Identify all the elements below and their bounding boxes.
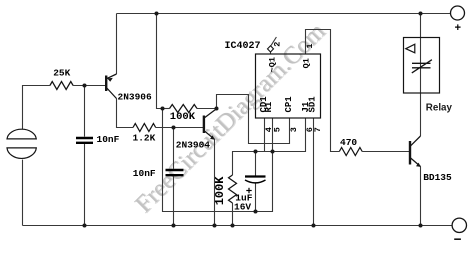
- transistor Q3 BD135: [410, 136, 421, 167]
- svg-text:Relay: Relay: [426, 103, 453, 114]
- junction ground rail / Q3 emitter: [419, 224, 423, 228]
- relay triangle: [406, 44, 415, 53]
- transistor Q1 arrow: [107, 78, 113, 82]
- transistor Q2 2N3904: [204, 109, 217, 140]
- resistor R 100K vertical: [229, 175, 237, 203]
- wire IC pin6 J1 and net-A horizontal: [233, 118, 306, 175]
- wire top rail: [117, 13, 451, 15]
- wire Q1 pin1 up over and down to 470: [306, 30, 340, 152]
- junction 100K left / net B: [161, 107, 165, 111]
- svg-text:100K: 100K: [170, 111, 196, 123]
- wire 1.2K to 2N3904 base: [156, 127, 204, 129]
- wire 100K-h right lead: [197, 108, 217, 110]
- wire 2N3904 collector route to CP1 pin3: [217, 95, 290, 144]
- wire pin2 slant tick: [271, 37, 276, 46]
- capacitor C3 1uF plates: [245, 177, 266, 183]
- svg-text:IC4027: IC4027: [225, 41, 261, 52]
- junction V+ rail / relay drop: [419, 12, 423, 16]
- resistor R 470: [339, 148, 362, 156]
- relay box: [404, 38, 440, 94]
- svg-text:1.2K: 1.2K: [133, 133, 156, 144]
- svg-text:100K: 100K: [213, 176, 227, 206]
- minus sign: [454, 238, 461, 240]
- wire 1uF bottom lead: [255, 184, 257, 212]
- svg-text:10nF: 10nF: [97, 134, 120, 145]
- terminal minus circle: [452, 218, 466, 232]
- capacitor C2 10nF plates: [166, 170, 184, 175]
- svg-text:2N3906: 2N3906: [118, 91, 153, 102]
- capacitor C1 10nF plates: [76, 138, 93, 143]
- pin 2 open diamond: [268, 46, 274, 52]
- wire 25K to base: [73, 85, 105, 87]
- junction ground rail / C2: [172, 224, 176, 228]
- svg-text:1: 1: [305, 43, 315, 48]
- wire 1uF top lead: [255, 152, 257, 176]
- wire 100K-v bottom to rail: [232, 203, 234, 226]
- wire 2N3904 emitter to rail: [214, 139, 216, 225]
- svg-text:R1: R1: [264, 101, 274, 112]
- svg-text:5: 5: [272, 127, 282, 132]
- wire IC pin4 CD1: [264, 118, 266, 152]
- svg-text:2N3904: 2N3904: [176, 139, 211, 150]
- wire mic bottom to rail: [22, 160, 24, 226]
- wire bottom rail: [23, 225, 453, 227]
- transistor Q2 arrow: [210, 135, 215, 139]
- relay coil cross symbol: [412, 60, 432, 73]
- junction 100K right / Q2 collector: [215, 107, 219, 111]
- terminal plus circle: [451, 6, 465, 20]
- svg-text:BD135: BD135: [423, 172, 452, 183]
- wire BD135 emitter to rail: [420, 167, 422, 226]
- capacitor C3 plus sign: [246, 188, 251, 193]
- wire 10nF2 to rail: [173, 176, 175, 225]
- rotated pin numbers: [264, 42, 323, 133]
- svg-text:16V: 16V: [234, 201, 251, 212]
- resistor R 1.2K: [133, 124, 156, 132]
- wire 10nF1 to rail: [84, 144, 86, 226]
- junction Q2 base / C2: [172, 126, 176, 130]
- junction ground rail / Q2 emitter: [213, 224, 217, 228]
- svg-text:10nF: 10nF: [133, 168, 156, 179]
- wire base line mic to 2N3906: [23, 86, 50, 130]
- wire 100K-h left lead: [163, 108, 170, 110]
- rotated IC pin labels: [213, 57, 318, 205]
- svg-text:Q1: Q1: [302, 58, 312, 68]
- svg-text:2: 2: [273, 42, 283, 47]
- svg-text:470: 470: [340, 137, 357, 148]
- wire 10nF2 branch from base: [173, 128, 175, 169]
- junction net A / C3 top: [254, 150, 258, 154]
- wire IC pin2 stub: [270, 52, 272, 54]
- wire 10nF1 branch: [84, 86, 86, 137]
- junction base wire / C1: [83, 84, 87, 88]
- wire rail drop x156 to 100K junction: [157, 14, 163, 109]
- resistor R 25K: [50, 82, 73, 90]
- junction V+ rail / x156 drop: [155, 12, 159, 16]
- svg-text:3: 3: [289, 127, 299, 132]
- junction net A / R1 pin5: [271, 150, 275, 154]
- junction ground rail / SD1 pin7: [312, 224, 316, 228]
- transistor Q3 arrow: [416, 163, 421, 167]
- wire IC pin7 SD1 to rail: [313, 118, 315, 226]
- svg-text:CP1: CP1: [284, 96, 294, 113]
- transistor Q1 2N3906: [106, 74, 116, 99]
- svg-text:7: 7: [313, 127, 323, 132]
- svg-text:+: +: [455, 23, 462, 35]
- microphone MIC: [7, 129, 36, 158]
- wire 470 to BD135 base: [362, 151, 409, 153]
- svg-text:SD1: SD1: [308, 96, 318, 113]
- wire relay drop from top rail to BD135 collector: [420, 14, 422, 137]
- IC U1 CD4027 box: [256, 54, 321, 118]
- junction net B / C3 bottom: [254, 210, 258, 214]
- wire top-left drop to 2N3906 emitter: [116, 14, 118, 75]
- resistor R 100K horizontal: [170, 105, 198, 113]
- wire net-B vertical and horizontal (junction to R1 pin): [163, 109, 273, 212]
- svg-text:~Q1: ~Q1: [268, 57, 278, 72]
- svg-text:25K: 25K: [53, 68, 70, 79]
- wire 2N3906 collector down and right to 1.2K: [117, 99, 134, 128]
- junction ground rail / 100K vertical: [231, 224, 235, 228]
- junction ground rail / C1: [83, 224, 87, 228]
